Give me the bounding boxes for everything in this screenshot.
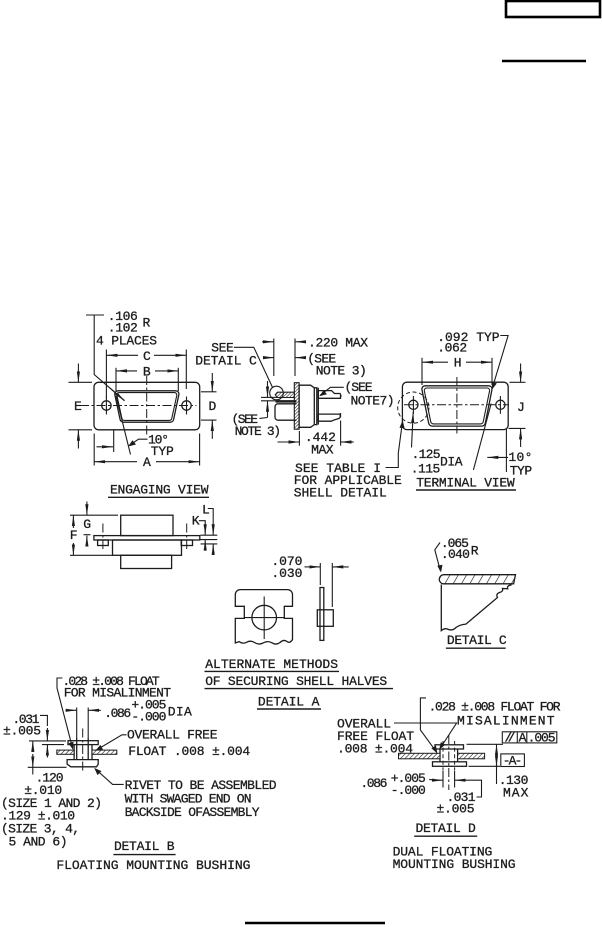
- svg-text:MAX: MAX: [311, 443, 334, 458]
- svg-text:.125: .125: [412, 447, 441, 462]
- D cutout inner: [117, 393, 177, 421]
- centerline: [82, 729, 84, 772]
- svg-text:B: B: [143, 365, 151, 380]
- top terminal: [318, 391, 341, 399]
- H dimension: [422, 356, 492, 386]
- svg-text:4 PLACES: 4 PLACES: [96, 334, 157, 349]
- bottom terminal: [318, 414, 340, 421]
- detail reference dashed circle: [398, 392, 429, 423]
- float leader: [420, 698, 436, 752]
- mounting hole left: [409, 400, 418, 409]
- svg-text:±.005: ±.005: [437, 802, 475, 817]
- 10 deg TYP bottom right: [505, 428, 507, 472]
- bushing body: [74, 745, 92, 760]
- (SEE NOTE 3) lower-left label and small vertical dimension: [232, 381, 282, 439]
- L dimension: [201, 502, 218, 555]
- svg-text:NOTE7): NOTE7): [351, 394, 395, 409]
- clip block: [317, 610, 333, 627]
- svg-text:OVERALL FREE: OVERALL FREE: [127, 728, 218, 743]
- leader to terminal view balloon: [386, 422, 403, 468]
- svg-text:R: R: [471, 544, 479, 559]
- .120 dimension: [28, 766, 67, 768]
- svg-text://: //: [505, 730, 516, 745]
- svg-text:.062: .062: [437, 341, 467, 356]
- mounting hole right: [182, 401, 191, 410]
- svg-text:5 AND 6): 5 AND 6): [9, 834, 68, 849]
- nut plate outline: [235, 590, 292, 644]
- svg-text:TERMINAL VIEW: TERMINAL VIEW: [416, 476, 515, 491]
- parallelism feature control frame: [502, 730, 557, 745]
- mounting hole right: [496, 400, 505, 409]
- svg-text:SHELL DETAIL: SHELL DETAIL: [294, 485, 387, 500]
- 10 deg arrow to vertical: [97, 446, 114, 448]
- svg-text:G: G: [83, 517, 91, 532]
- datum -A- flag: [501, 753, 525, 768]
- svg-text:-.000: -.000: [131, 710, 166, 725]
- svg-text:OF SECURING SHELL HALVES: OF SECURING SHELL HALVES: [205, 674, 387, 689]
- radius leader: [86, 315, 125, 401]
- horizontal centerline: [80, 405, 197, 407]
- panel plates hatched: [57, 750, 74, 754]
- D cutout outer: [115, 391, 179, 422]
- svg-text:±.005: ±.005: [3, 724, 41, 739]
- front shell: [121, 555, 172, 568]
- svg-text:DETAIL B: DETAIL B: [114, 839, 175, 854]
- svg-text:MAX: MAX: [503, 786, 529, 801]
- body break outline: [441, 585, 511, 631]
- retainer strip side view: [320, 588, 324, 641]
- header rule top right: [502, 60, 586, 62]
- svg-text:.086: .086: [104, 706, 131, 721]
- svg-text:TYP: TYP: [151, 444, 174, 459]
- svg-text:FLOATING MOUNTING BUSHING: FLOATING MOUNTING BUSHING: [56, 858, 250, 873]
- A dimension: [94, 434, 199, 470]
- svg-text:MOUNTING BUSHING: MOUNTING BUSHING: [393, 857, 516, 872]
- left bushing block: [98, 540, 109, 546]
- svg-text:ENGAGING VIEW: ENGAGING VIEW: [110, 483, 209, 498]
- svg-text:A: A: [519, 730, 527, 745]
- J dimension: [509, 364, 526, 448]
- vertical centerline: [456, 377, 458, 434]
- C dimension: [106, 349, 186, 398]
- bushing body: [440, 749, 458, 762]
- svg-text:.028 ±.008 FLOAT FOR: .028 ±.008 FLOAT FOR: [429, 700, 561, 715]
- horizontal centerline: [404, 404, 509, 406]
- svg-text:L: L: [202, 502, 210, 517]
- svg-text:F: F: [70, 528, 78, 543]
- G dimension: [70, 502, 118, 545]
- hole cross ticks: [412, 396, 414, 414]
- svg-text:BACKSIDE OFASSEMBLY: BACKSIDE OFASSEMBLY: [125, 805, 260, 820]
- F dimension: [70, 515, 113, 555]
- D cutout inner: [424, 388, 489, 424]
- mounting hole left: [102, 401, 111, 410]
- footer rule bottom center: [245, 922, 385, 924]
- hole centerlines: [102, 524, 104, 552]
- center hole: [252, 605, 277, 630]
- svg-text:D: D: [209, 399, 217, 414]
- svg-text:-A-: -A-: [503, 753, 523, 768]
- svg-text:K: K: [192, 514, 200, 529]
- svg-text:A: A: [143, 455, 151, 470]
- svg-text:.030: .030: [271, 566, 302, 581]
- svg-text:NOTE 3): NOTE 3): [235, 424, 282, 439]
- svg-text:-.000: -.000: [391, 783, 426, 798]
- svg-text:MISALINMENT: MISALINMENT: [457, 714, 555, 729]
- svg-text:DIA: DIA: [440, 455, 463, 470]
- shell body: [299, 385, 314, 427]
- svg-text:NOTE 3): NOTE 3): [316, 364, 367, 379]
- panel plates hatched: [399, 753, 441, 759]
- hole crosshair: [263, 597, 265, 640]
- flange outline: [94, 382, 200, 430]
- flange outline: [402, 382, 508, 429]
- svg-text:R: R: [143, 316, 151, 331]
- rear body: [121, 515, 173, 535]
- svg-text:DETAIL C: DETAIL C: [195, 353, 257, 368]
- float leader: [57, 678, 73, 748]
- svg-text:DETAIL C: DETAIL C: [447, 633, 507, 648]
- svg-text:.115: .115: [411, 461, 441, 476]
- svg-text:.005: .005: [528, 730, 556, 745]
- D cutout outer: [422, 386, 492, 426]
- lip lower profile lines: [276, 400, 296, 402]
- rear cap: [314, 388, 317, 425]
- svg-text:E: E: [74, 399, 82, 414]
- title block box top right: [506, 1, 600, 17]
- 10 deg leader: [130, 439, 148, 445]
- mid shell: [113, 540, 182, 555]
- bore hidden lines: [442, 741, 444, 770]
- .130 MAX dimension: [467, 743, 504, 745]
- svg-text:DIA: DIA: [168, 705, 192, 720]
- flange plate section: [294, 383, 299, 430]
- hatched edge bar: [439, 575, 515, 584]
- .220 MAX dimension: [262, 335, 368, 376]
- svg-text:C: C: [143, 349, 151, 364]
- .070/.030 dimension: [319, 563, 321, 585]
- svg-text:DETAIL A: DETAIL A: [258, 695, 320, 710]
- swaged bottom flange: [67, 760, 98, 767]
- svg-text:.040: .040: [441, 547, 470, 562]
- right bushing block: [181, 540, 192, 546]
- (SEE NOTE 3) upper dimension row: [264, 351, 367, 378]
- centerline: [448, 735, 450, 790]
- rivet shank lines: [76, 738, 78, 760]
- svg-text:.220 MAX: .220 MAX: [308, 335, 368, 350]
- 10 deg angle: vertical reference: [113, 431, 115, 453]
- E dimension: [69, 364, 93, 449]
- hole cross ticks: [105, 397, 107, 415]
- svg-text:FLOAT .008 ±.004: FLOAT .008 ±.004: [128, 744, 250, 759]
- D dimension: [201, 373, 217, 439]
- svg-text:.086: .086: [360, 776, 387, 791]
- 10 deg angle: slant extension: [116, 396, 131, 455]
- flange plate: [94, 536, 200, 540]
- vertical centerline: [146, 376, 148, 435]
- svg-text:ALTERNATE METHODS: ALTERNATE METHODS: [205, 657, 338, 672]
- detail balloon circle: [270, 386, 284, 400]
- .442 MAX dimension: [278, 413, 354, 458]
- front lip section: [275, 392, 294, 397]
- B dimension: [116, 365, 178, 392]
- svg-text:DETAIL D: DETAIL D: [416, 821, 476, 836]
- bushing bottom flange: [433, 762, 467, 767]
- K dimension: [192, 514, 218, 551]
- svg-text:H: H: [454, 356, 462, 371]
- bushing top flange: [435, 745, 464, 749]
- svg-text:J: J: [517, 400, 525, 415]
- bushing top flange: [68, 741, 98, 745]
- lower tube wall: [275, 404, 296, 420]
